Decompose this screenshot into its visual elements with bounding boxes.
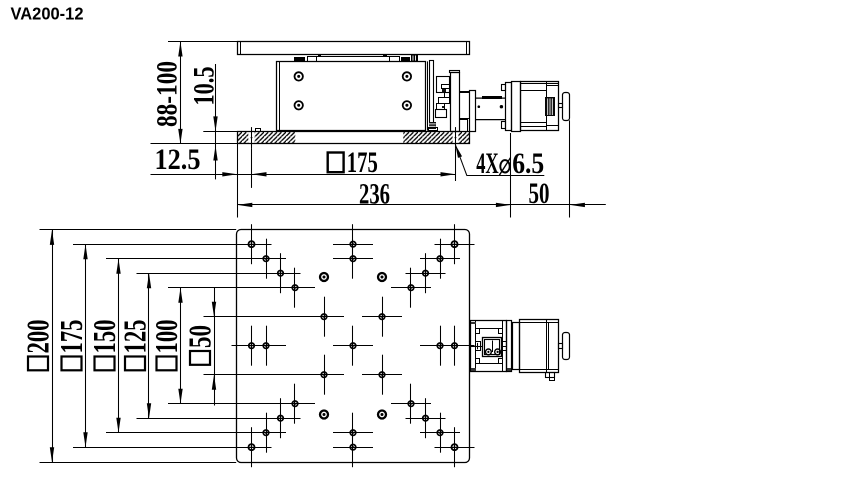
coupling screw dots [478, 105, 504, 108]
plan motor connector [546, 372, 555, 380]
leadscrew bearing cluster [428, 61, 450, 131]
svg-text:4X: 4X [476, 147, 499, 180]
label 4X dia 6.5 [455, 145, 544, 181]
counterbore hole (382,414.5) [378, 411, 386, 419]
threaded hole (280.5,418.2) [261, 398, 301, 438]
counterbore hole (324,277) [320, 273, 328, 281]
threaded hole (266,432.7) [246, 413, 286, 453]
dimension square-150 [86, 259, 281, 433]
dimension square-125 [117, 273, 296, 418]
motor rear shaft [559, 104, 563, 108]
body screw bottom-left [295, 101, 303, 109]
body screw top-left [295, 72, 303, 80]
lower bearing block [429, 122, 438, 131]
dimension 50 [511, 177, 606, 210]
base plate section [237, 131, 469, 144]
mounting hole dia6.5 (454.5,244.2) [435, 224, 475, 264]
extension line knob [569, 120, 571, 217]
extension line motor face [510, 133, 512, 218]
motor knob side [563, 93, 570, 121]
dimension square-200 [20, 230, 237, 463]
extension line right hole [455, 149, 457, 181]
motor front flange [506, 83, 512, 131]
plan motor flange [507, 321, 512, 372]
motor bracket plate [450, 71, 460, 132]
threaded hole (425.5,418.2) [406, 398, 446, 438]
svg-text:175: 175 [53, 320, 89, 354]
threaded hole (324,316.7) [304, 297, 344, 337]
motor connector [545, 97, 555, 116]
dimension 88-100 [150, 42, 237, 144]
motor front tabs [502, 85, 506, 129]
threaded hole (353,432.7) [333, 413, 373, 453]
threaded hole (353,345.7) [333, 326, 373, 366]
threaded hole (295,403.7) [275, 384, 315, 424]
svg-text:6.5: 6.5 [512, 147, 544, 180]
threaded hole (353,258.7) [333, 239, 373, 279]
leadscrew centerline [470, 343, 483, 349]
side view top plate [238, 42, 470, 55]
extension line left hole [251, 149, 253, 188]
mounting hole dia6.5 (454.5,447.2) [435, 427, 475, 467]
threaded hole (280.5,273.2) [261, 253, 301, 293]
threaded hole (251.5,345.7) [232, 326, 272, 366]
dimension 236 [237, 177, 511, 210]
threaded hole (324,374.7) [304, 355, 344, 395]
dimension square-175 [252, 146, 456, 179]
threaded hole (382,316.7) [362, 297, 402, 337]
svg-text:12.5: 12.5 [155, 143, 201, 176]
coupling window [483, 338, 502, 357]
side view main body [277, 61, 426, 130]
dimension 10.5 [187, 64, 237, 179]
body screw top-right [403, 72, 411, 80]
base plate hole right centerline [455, 127, 457, 149]
plan motor shaft [559, 344, 563, 349]
svg-text:50: 50 [529, 177, 550, 210]
side view rail interface [294, 54, 418, 62]
svg-text:100: 100 [148, 320, 184, 354]
dimension 12.5 [151, 143, 267, 177]
dowel bump [256, 129, 261, 132]
motor body side [521, 81, 559, 130]
title VA200-12 [11, 4, 84, 24]
plan coupling housing [471, 321, 512, 372]
threaded hole (353,447.2) [333, 427, 373, 467]
svg-text:10.5: 10.5 [187, 67, 220, 106]
dimension square-100 [148, 288, 310, 404]
threaded hole (353,244.2) [333, 224, 373, 264]
svg-text:50: 50 [182, 325, 218, 348]
plan view plate [237, 230, 470, 463]
threaded hole (411,287.7) [391, 268, 431, 308]
threaded hole (454.5,345.7) [435, 326, 475, 366]
body screw bottom-right [403, 101, 411, 109]
bracket foot block [460, 120, 468, 132]
svg-text:VA200-12: VA200-12 [11, 4, 84, 24]
threaded hole (440,258.7) [420, 239, 460, 279]
coupling set screws [486, 349, 501, 355]
dimension square-50 [182, 288, 340, 406]
mounting hole dia6.5 (251.5,244.2) [232, 224, 272, 264]
dimension square-175 [53, 244, 267, 447]
threaded hole (382,374.7) [362, 355, 402, 395]
extension line plate left edge [237, 144, 239, 218]
coupling housing side [459, 91, 505, 132]
plan motor knob [563, 333, 570, 360]
svg-text:88-100: 88-100 [150, 61, 183, 127]
threaded hole (425.5,273.2) [406, 253, 446, 293]
svg-text:200: 200 [20, 320, 56, 354]
threaded hole (440,432.7) [420, 413, 460, 453]
counterbore hole (382,277) [378, 273, 386, 281]
threaded hole (266,258.7) [246, 239, 286, 279]
motor pilot ring [512, 82, 521, 132]
mounting hole dia6.5 (251.5,447.2) [232, 427, 272, 467]
svg-text:175: 175 [347, 146, 378, 179]
threaded hole (440,345.7) [420, 326, 460, 366]
plan motor body [520, 320, 559, 373]
plan motor ring [513, 323, 520, 370]
svg-text:236: 236 [359, 177, 390, 210]
base plate hole left centerline [251, 127, 253, 149]
threaded hole (266,345.7) [246, 326, 286, 366]
threaded hole (295,287.7) [275, 268, 315, 308]
counterbore hole (324,414.5) [320, 411, 328, 419]
threaded hole (411,403.7) [391, 384, 431, 424]
